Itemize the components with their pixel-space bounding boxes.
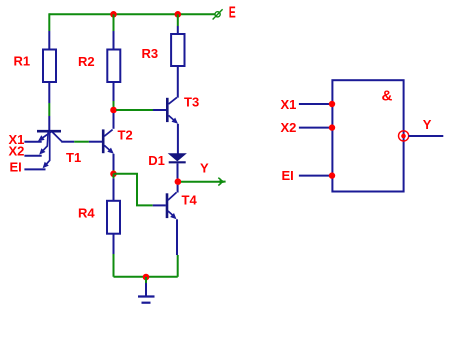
label X2 (gate) (281, 120, 297, 135)
label & (382, 88, 393, 105)
wire input X2 (24, 155, 41, 157)
logic gate U1 body (332, 80, 403, 191)
pin dot X1 (329, 101, 335, 107)
wire rail to R1 (48, 13, 50, 31)
node junction on rail above R2 (110, 11, 117, 18)
node Y junction (175, 178, 182, 185)
svg-text:EI: EI (10, 159, 22, 174)
transistor T1 (multi-emitter) (37, 131, 62, 168)
wire node B to T4 base (114, 174, 166, 206)
resistor R4 (107, 178, 120, 254)
resistor R3 (171, 26, 184, 98)
inversion bubble output (399, 131, 409, 141)
label R2 (78, 54, 95, 69)
node B junction T2 emitter / R4 (110, 171, 117, 178)
label T2 (118, 128, 133, 143)
wire R4 to bottom rail (113, 174, 115, 277)
wire rail to R3 (177, 14, 179, 26)
svg-text:Y: Y (423, 117, 432, 132)
svg-text:T4: T4 (182, 193, 198, 208)
transistor T2 (103, 129, 114, 153)
wire T2 emitter down to node B (113, 154, 115, 174)
wire R2 to node (113, 101, 115, 110)
svg-text:R2: R2 (78, 54, 95, 69)
svg-text:T3: T3 (184, 95, 199, 110)
wire output Y arrow (181, 178, 226, 186)
svg-text:EI: EI (282, 168, 294, 183)
wire input EI (24, 168, 45, 170)
label EI (gate) (282, 168, 294, 183)
label D1 (148, 153, 165, 168)
svg-text:T1: T1 (66, 150, 81, 165)
wire gate input X1 (299, 103, 333, 105)
wire top power rail (49, 13, 215, 15)
svg-text:T2: T2 (118, 128, 133, 143)
label Y (left circuit) (200, 161, 209, 176)
resistor R2 (107, 31, 120, 101)
node junction on rail above R3 (175, 11, 182, 18)
svg-text:X2: X2 (9, 144, 25, 159)
resistor R1 (43, 31, 56, 103)
label T1 (66, 150, 81, 165)
ground (138, 277, 155, 303)
label Y (gate) (423, 117, 432, 132)
wire node A to T3 base (116, 109, 166, 111)
wire input X1 (24, 141, 41, 143)
transistor T3 (167, 97, 178, 123)
label R4 (78, 206, 95, 221)
svg-text:R3: R3 (142, 46, 159, 61)
svg-text:R1: R1 (14, 54, 31, 69)
wire gate output Y (409, 135, 444, 137)
svg-text:R4: R4 (78, 206, 95, 221)
wire T1 collector to T2 base (61, 141, 102, 143)
svg-text:D1: D1 (148, 153, 165, 168)
wire gate input EI (299, 175, 333, 177)
transistor T4 (167, 192, 177, 219)
wire gate input X2 (299, 127, 333, 129)
svg-text:Y: Y (200, 161, 209, 176)
wire T4 emitter down (176, 219, 179, 276)
label EI (10, 159, 22, 174)
wire T3 emitter to D1 (177, 124, 179, 154)
svg-text:X2: X2 (281, 120, 297, 135)
label R1 (14, 54, 31, 69)
label X1 (9, 132, 25, 147)
svg-text:&: & (382, 88, 393, 105)
wire node Y to T4 collector (177, 185, 179, 193)
label X1 (gate) (281, 97, 297, 112)
svg-text:X1: X1 (281, 97, 297, 112)
node junction bottom rail (143, 274, 150, 281)
label T4 (182, 193, 198, 208)
label R3 (142, 46, 159, 61)
diode D1 (169, 154, 186, 179)
wire R1 to T1 base (48, 103, 50, 130)
svg-text:E: E (229, 4, 236, 21)
label T3 (184, 95, 199, 110)
label X2 (9, 144, 25, 159)
terminal E (213, 9, 223, 19)
wire rail to R2 (113, 14, 115, 31)
pin dot EI (329, 172, 335, 178)
node A junction R2/T2/T3 (110, 107, 117, 114)
label E (229, 4, 236, 21)
wire node A down to T2 collector (113, 113, 115, 129)
wire bottom rail (114, 276, 178, 278)
pin dot X2 (329, 124, 335, 130)
